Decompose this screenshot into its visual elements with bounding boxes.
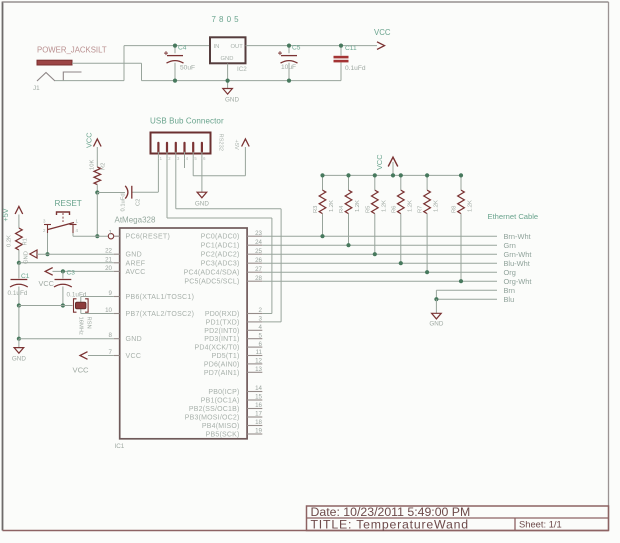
- connector pin 1: [157, 143, 159, 152]
- svg-text:0.1uFd: 0.1uFd: [345, 65, 366, 72]
- svg-text:VCC: VCC: [374, 28, 391, 37]
- pin 20 AVCC: [114, 270, 120, 272]
- svg-text:Ethernet Cable: Ethernet Cable: [488, 212, 539, 221]
- pin 16 PB2(SS/OC1B): [247, 408, 262, 410]
- svg-text:5: 5: [259, 332, 263, 339]
- svg-text:RESET: RESET: [55, 199, 82, 208]
- IC U1 AtMega328 body: [120, 228, 247, 439]
- svg-text:PD6(AIN0): PD6(AIN0): [204, 361, 240, 368]
- supply arrow VCC left pin7: [80, 352, 88, 360]
- svg-text:16MHz: 16MHz: [78, 317, 84, 335]
- svg-text:15: 15: [255, 394, 262, 401]
- svg-text:C11: C11: [345, 45, 357, 52]
- ground sideways on row 22: [30, 250, 37, 258]
- svg-text:VCC: VCC: [73, 366, 90, 375]
- svg-text:22: 22: [105, 248, 112, 255]
- svg-text:C4: C4: [178, 45, 187, 52]
- svg-text:0.1uFd: 0.1uFd: [121, 193, 127, 211]
- svg-text:12: 12: [255, 358, 262, 365]
- wire pin2 RXD: [166, 159, 168, 218]
- supply arrow VCC left AVCC: [45, 268, 53, 276]
- wire PC5 to ethernet: [262, 280, 497, 282]
- svg-text:PB7(XTAL2/TOSC2): PB7(XTAL2/TOSC2): [126, 311, 195, 318]
- svg-text:PD4(XCK/T0): PD4(XCK/T0): [195, 345, 240, 352]
- wire caps to crystal: [19, 305, 73, 307]
- svg-text:1: 1: [109, 230, 113, 237]
- pin 10 PB7(XTAL2/TOSC2): [114, 313, 120, 315]
- svg-text:11: 11: [256, 349, 263, 356]
- svg-text:GND: GND: [195, 201, 209, 208]
- wire VCC row 7: [88, 355, 114, 357]
- wire 7805 GND down: [227, 64, 229, 89]
- supply arrow +5V at R1: [15, 207, 23, 215]
- svg-text:VCC: VCC: [39, 279, 54, 288]
- pin 3 PD1(TXD): [247, 321, 262, 323]
- wire R2 to reset row: [96, 193, 98, 237]
- wire pin6 to ground: [201, 159, 203, 192]
- wire VCC rail resistors: [323, 174, 462, 176]
- svg-text:TITLE: TemperatureWand: TITLE: TemperatureWand: [311, 517, 469, 531]
- svg-text:Org-Wht: Org-Wht: [504, 277, 532, 286]
- wire ground rail: [142, 80, 342, 82]
- svg-text:20: 20: [105, 265, 112, 272]
- wire PC1 to ethernet: [262, 244, 497, 246]
- wire R1 to AREF row: [18, 250, 20, 263]
- pin 23 PC0(ADC0): [247, 235, 262, 237]
- svg-text:50uF: 50uF: [180, 65, 195, 72]
- svg-text:Brn-Wht: Brn-Wht: [504, 232, 531, 241]
- svg-text:Grn: Grn: [504, 241, 516, 250]
- supply arrow VCC right: [377, 42, 385, 50]
- svg-text:PC0(ADC0): PC0(ADC0): [201, 234, 240, 241]
- svg-text:6: 6: [259, 341, 263, 348]
- svg-text:Sheet: 1/1: Sheet: 1/1: [519, 519, 562, 530]
- svg-text:GND: GND: [126, 252, 142, 259]
- pin 1 PC6(RESET): [114, 235, 120, 237]
- resistor R3 1.2K: [322, 175, 324, 190]
- border frame top: [3, 1, 609, 3]
- connector J1 switch contact: [63, 72, 81, 81]
- svg-text:AtMega328: AtMega328: [115, 216, 156, 225]
- svg-text:R8: R8: [452, 206, 458, 213]
- connector X1 USB box: [151, 133, 211, 154]
- svg-text:1.2K: 1.2K: [434, 200, 440, 212]
- svg-text:Blu-Wht: Blu-Wht: [504, 259, 530, 268]
- svg-text:VCC: VCC: [85, 132, 94, 148]
- svg-text:1.2K: 1.2K: [355, 200, 361, 212]
- title block: [307, 506, 609, 531]
- pin 19 PB5(SCK): [247, 433, 262, 435]
- svg-text:Grn-Wht: Grn-Wht: [504, 250, 532, 259]
- svg-text:C5: C5: [292, 45, 301, 52]
- svg-text:GND: GND: [429, 321, 443, 328]
- svg-text:PC4(ADC4/SDA): PC4(ADC4/SDA): [184, 270, 240, 277]
- svg-text:28: 28: [255, 275, 262, 282]
- wire pin5 to +5V arrow: [192, 159, 194, 176]
- pin 26 PC3(ADC3): [247, 262, 262, 264]
- svg-text:10: 10: [105, 307, 112, 314]
- svg-text:PC1(ADC1): PC1(ADC1): [201, 243, 240, 250]
- svg-text:25: 25: [255, 248, 262, 255]
- wire jack tip to elbow: [55, 80, 124, 82]
- svg-text:PB0(ICP): PB0(ICP): [208, 389, 239, 396]
- svg-text:VCC: VCC: [375, 154, 384, 170]
- svg-text:R2: R2: [101, 163, 107, 170]
- svg-text:R7: R7: [418, 206, 424, 213]
- svg-text:IN: IN: [214, 44, 220, 50]
- resistor R5 1.2K: [374, 175, 376, 190]
- resistor R7 1.2K: [426, 175, 428, 190]
- svg-text:7805: 7805: [212, 15, 242, 24]
- wire AVCC row 20: [53, 270, 114, 272]
- svg-text:+5V: +5V: [1, 208, 10, 221]
- svg-text:13: 13: [255, 366, 262, 373]
- svg-text:Brn: Brn: [504, 286, 516, 295]
- wire PC3 to ethernet: [262, 262, 497, 264]
- connector J1 tip contact: [37, 73, 55, 82]
- svg-text:R3: R3: [313, 206, 319, 213]
- svg-text:PD0(RXD): PD0(RXD): [205, 311, 240, 318]
- svg-text:PD1(TXD): PD1(TXD): [206, 319, 240, 326]
- wire gnd row 8: [19, 338, 114, 340]
- wire R2 bottom: [96, 185, 98, 193]
- svg-text:2: 2: [259, 307, 263, 314]
- svg-text:IC1: IC1: [115, 443, 125, 450]
- svg-text:+5V: +5V: [233, 140, 239, 150]
- pin 28 PC5(ADC5/SCL): [247, 280, 262, 282]
- wire pin1 to C2: [157, 159, 159, 192]
- wire Blu stub: [436, 298, 497, 300]
- supply arrow +5V up: [242, 139, 250, 147]
- wire xtal1 row 9: [81, 296, 114, 298]
- ground bottom left: [14, 348, 24, 354]
- svg-text:PC3(ADC3): PC3(ADC3): [201, 261, 240, 268]
- svg-text:1.2K: 1.2K: [381, 200, 387, 212]
- svg-text:1.2K: 1.2K: [329, 200, 335, 212]
- wire elbow down to ground rail: [141, 63, 143, 80]
- svg-text:24: 24: [255, 239, 262, 246]
- ground right: [432, 313, 442, 319]
- border frame right: [608, 2, 610, 531]
- svg-text:PD7(AIN1): PD7(AIN1): [204, 370, 240, 377]
- svg-text:4: 4: [259, 324, 263, 331]
- pin 14 PB0(ICP): [247, 391, 262, 393]
- pin 12 PD6(AIN0): [247, 363, 262, 365]
- svg-text:USB Bub Connector: USB Bub Connector: [150, 117, 224, 126]
- resistor R8 1.2K: [460, 175, 462, 190]
- capacitor C2: [97, 192, 125, 194]
- resistor R1: [16, 228, 23, 250]
- svg-text:PB6(XTAL1/TOSC1): PB6(XTAL1/TOSC1): [126, 294, 195, 301]
- svg-text:PD3(INT1): PD3(INT1): [204, 336, 239, 343]
- ground below USB: [197, 192, 207, 198]
- pin 9 PB6(XTAL1/TOSC1): [114, 296, 120, 298]
- connector pin 5: [192, 143, 194, 152]
- pin 18 PB4(MISO): [247, 425, 262, 427]
- svg-text:27: 27: [255, 266, 262, 273]
- supply arrow VCC up at R2: [94, 139, 102, 147]
- svg-text:R4: R4: [339, 205, 345, 213]
- resistor R4 1.2K: [348, 175, 350, 190]
- svg-text:GND: GND: [24, 251, 30, 264]
- svg-text:14: 14: [255, 385, 262, 392]
- svg-text:PB2(SS/OC1B): PB2(SS/OC1B): [189, 406, 240, 413]
- pin 27 PC4(ADC4/SDA): [247, 271, 262, 273]
- supply arrow VCC resistors: [392, 162, 394, 175]
- svg-text:PC2(ADC2): PC2(ADC2): [201, 252, 240, 259]
- wire PC0 to ethernet: [262, 235, 497, 237]
- svg-text:0.1uFd: 0.1uFd: [67, 292, 87, 299]
- wire AREF row 21: [19, 262, 114, 264]
- svg-text:R6: R6: [391, 206, 397, 213]
- svg-text:PB1(OC1A): PB1(OC1A): [201, 398, 240, 405]
- svg-text:23: 23: [255, 230, 262, 237]
- switch S1: [57, 212, 70, 215]
- svg-text:PB3(MOSI/OC2): PB3(MOSI/OC2): [185, 415, 240, 422]
- pin 13 PD7(AIN1): [247, 371, 262, 373]
- svg-text:RSN: RSN: [86, 317, 92, 329]
- svg-text:10K: 10K: [90, 160, 96, 170]
- pin 17 PB3(MOSI/OC2): [247, 416, 262, 418]
- wire switch left to gnd row: [47, 233, 49, 254]
- svg-text:Org: Org: [504, 268, 516, 277]
- capacitor C5: [288, 46, 290, 54]
- svg-text:PB4(MISO): PB4(MISO): [202, 423, 240, 430]
- resistor R2: [94, 167, 101, 185]
- svg-text:AREF: AREF: [126, 260, 146, 267]
- wire PC4 to ethernet: [262, 271, 497, 273]
- pin 5 PD3(INT1): [247, 338, 262, 340]
- pin 15 PB1(OC1A): [247, 399, 262, 401]
- wire PC2 to ethernet: [262, 253, 497, 255]
- svg-text:VCC: VCC: [126, 353, 142, 360]
- svg-text:1.2K: 1.2K: [407, 200, 413, 212]
- svg-text:3: 3: [259, 316, 263, 323]
- svg-text:GND: GND: [221, 56, 234, 62]
- svg-text:PB5(SCK): PB5(SCK): [206, 432, 240, 439]
- svg-text:PD5(T1): PD5(T1): [212, 353, 240, 360]
- svg-text:POWER_JACKSILT: POWER_JACKSILT: [37, 46, 107, 55]
- svg-text:7: 7: [109, 349, 113, 356]
- svg-text:OUT: OUT: [231, 44, 244, 50]
- svg-text:0.1uFd: 0.1uFd: [8, 290, 28, 297]
- wire jack sleeve to elbow: [72, 62, 142, 64]
- svg-text:19: 19: [255, 428, 262, 435]
- wire pin4 stub: [184, 159, 186, 168]
- wire pin3 TXD: [175, 159, 177, 209]
- svg-text:AVCC: AVCC: [126, 269, 146, 276]
- svg-text:8: 8: [109, 332, 113, 339]
- svg-text:21: 21: [105, 256, 112, 263]
- svg-text:GND: GND: [12, 356, 26, 363]
- capacitor C4: [174, 46, 176, 54]
- capacitor C11: [340, 46, 342, 56]
- svg-text:IC2: IC2: [237, 66, 247, 73]
- svg-text:C2: C2: [136, 199, 142, 206]
- svg-text:GND: GND: [126, 336, 142, 343]
- pin 4 PD2(INT0): [247, 329, 262, 331]
- svg-text:17: 17: [255, 411, 262, 418]
- pin 24 PC1(ADC1): [247, 244, 262, 246]
- svg-text:16: 16: [255, 402, 262, 409]
- crystal Q1 16MHz: [80, 297, 82, 314]
- pin 25 PC2(ADC2): [247, 253, 262, 255]
- svg-text:26: 26: [255, 257, 262, 264]
- pin 22 GND: [114, 253, 120, 255]
- wire gnd row 22: [37, 253, 114, 255]
- border frame left: [2, 2, 4, 531]
- svg-text:RS232: RS232: [218, 134, 224, 151]
- svg-text:GND: GND: [225, 97, 239, 104]
- svg-text:10uF: 10uF: [281, 64, 296, 71]
- connector pin 6: [201, 143, 203, 152]
- wire switch right to reset row: [72, 233, 74, 236]
- connector pin 4: [183, 143, 185, 152]
- wire xtal2 row 10: [81, 313, 114, 315]
- svg-text:Blu: Blu: [504, 295, 515, 304]
- wire 7805 OUT rail to VCC: [246, 45, 378, 47]
- connector pin 3: [175, 143, 177, 152]
- pin 7 VCC: [114, 355, 120, 357]
- svg-text:1.2K: 1.2K: [468, 200, 474, 212]
- pin 11 PD5(T1): [247, 355, 262, 357]
- pin 6 PD4(XCK/T0): [247, 346, 262, 348]
- svg-text:R1: R1: [23, 238, 29, 245]
- svg-text:18: 18: [255, 419, 262, 426]
- svg-text:J1: J1: [33, 85, 40, 92]
- svg-text:0.2K: 0.2K: [7, 235, 13, 247]
- wire elbow up to input rail: [123, 46, 125, 81]
- svg-text:PC5(ADC5/SCL): PC5(ADC5/SCL): [184, 279, 239, 286]
- svg-text:9: 9: [109, 290, 113, 297]
- svg-text:C3: C3: [67, 270, 76, 277]
- resistor R6 1.2K: [400, 175, 402, 190]
- wire C1 to gnd row 8: [18, 306, 20, 339]
- border frame bottom: [3, 530, 609, 532]
- pin 1 inversion bubble: [108, 234, 113, 239]
- pin 2 PD0(RXD): [247, 313, 262, 315]
- wire to right ground: [435, 299, 437, 313]
- connector J1 power jack sleeve bar: [37, 60, 72, 65]
- svg-text:PC6(RESET): PC6(RESET): [126, 234, 171, 241]
- connector pin 2: [166, 143, 168, 152]
- svg-text:PD2(INT0): PD2(INT0): [204, 328, 239, 335]
- svg-text:R5: R5: [365, 206, 371, 213]
- pin 8 GND: [114, 338, 120, 340]
- wire Brn stub: [436, 289, 497, 291]
- ground below 7805: [223, 89, 233, 95]
- pin 21 AREF: [114, 262, 120, 264]
- regulator IC2 7805: [210, 37, 246, 63]
- wire input rail to 7805 IN: [124, 45, 210, 47]
